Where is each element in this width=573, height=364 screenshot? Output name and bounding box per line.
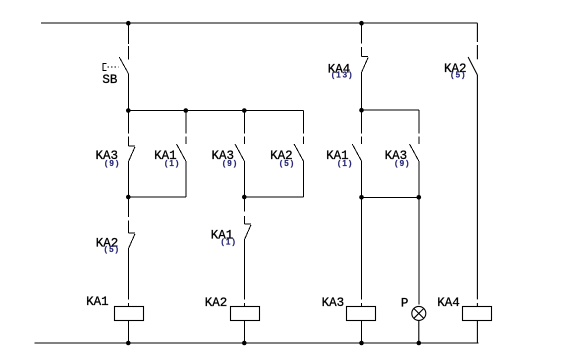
- svg-text:(5): (5): [280, 159, 296, 168]
- svg-text:P: P: [401, 296, 409, 310]
- svg-text:(1): (1): [165, 159, 181, 168]
- svg-text:(9): (9): [395, 159, 411, 168]
- svg-text:KA2: KA2: [205, 296, 228, 310]
- svg-text:KA1: KA1: [86, 295, 109, 309]
- svg-text:(13): (13): [332, 71, 354, 80]
- svg-text:(1): (1): [338, 159, 354, 168]
- svg-text:SB: SB: [102, 73, 118, 87]
- svg-text:(9): (9): [223, 159, 239, 168]
- svg-text:KA4: KA4: [437, 296, 460, 310]
- svg-text:(5): (5): [104, 245, 120, 254]
- svg-text:(1): (1): [221, 238, 237, 247]
- svg-text:(5): (5): [451, 70, 467, 79]
- svg-text:KA3: KA3: [322, 296, 345, 310]
- svg-text:(9): (9): [105, 159, 121, 168]
